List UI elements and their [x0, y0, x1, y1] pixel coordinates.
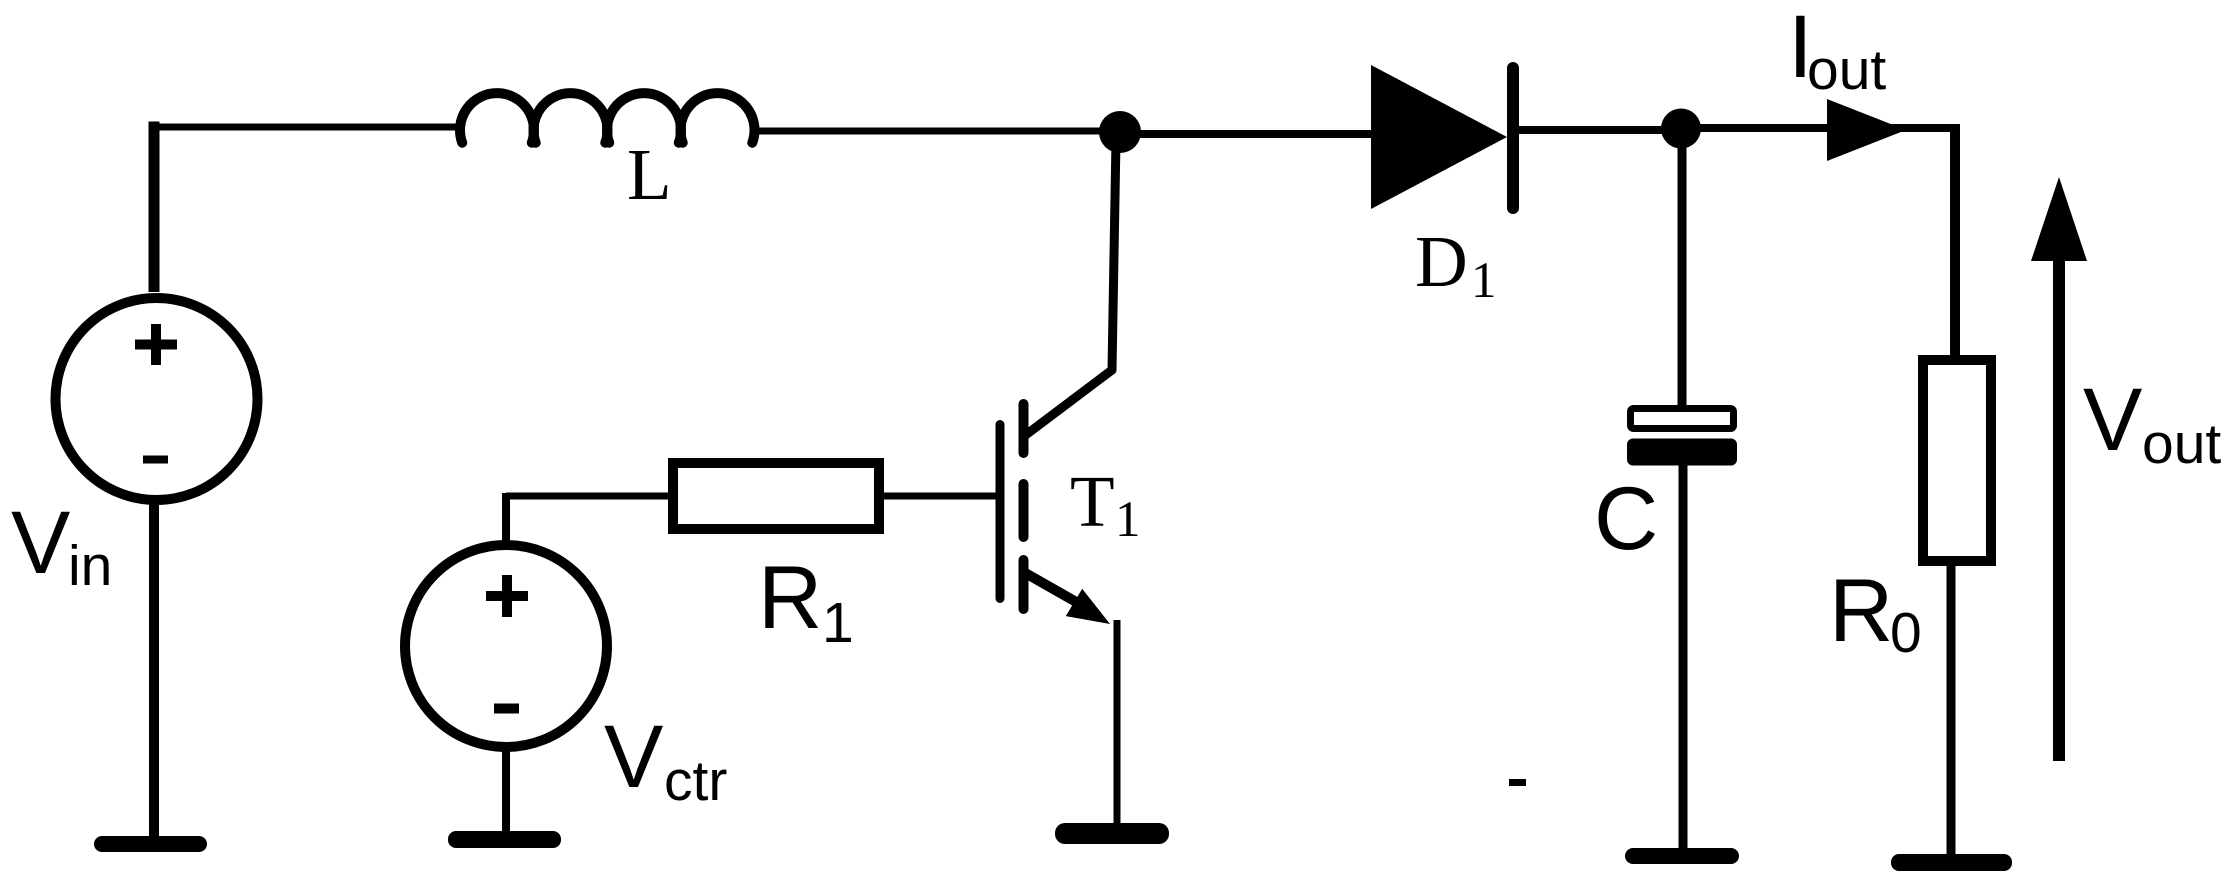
svg-text:T: T — [1070, 461, 1115, 542]
Vctr plus sign — [486, 575, 528, 617]
wire down to R0 — [1950, 124, 1960, 355]
diode D1 cathode bar — [1507, 68, 1519, 208]
resistor R1 — [673, 463, 879, 529]
transistor T1 emitter line — [1024, 572, 1086, 607]
diode D1 triangle — [1371, 65, 1507, 209]
wire Vctr top — [502, 493, 510, 546]
wire node B down to capacitor — [1678, 140, 1687, 406]
Vin plus sign — [135, 324, 177, 365]
wire Vctr to R1 — [506, 493, 668, 500]
node A junction dot — [1099, 111, 1141, 153]
wire node A to diode — [1120, 130, 1371, 138]
svg-text:1: 1 — [822, 591, 854, 655]
svg-text:1: 1 — [1115, 492, 1141, 548]
svg-text:1: 1 — [1471, 253, 1497, 309]
Vin minus sign — [143, 456, 168, 464]
transistor T1 gate bar — [996, 425, 1005, 599]
ground Vin — [94, 836, 207, 852]
wire node B to corner — [1681, 124, 1960, 132]
minus mark near C — [1509, 779, 1526, 786]
svg-text:L: L — [627, 134, 672, 215]
Vout arrow line — [2053, 255, 2065, 761]
svg-text:in: in — [68, 534, 112, 598]
wire Vin bottom — [149, 500, 159, 836]
ground T1 — [1055, 823, 1169, 844]
resistor R0 — [1923, 360, 1991, 561]
svg-text:out: out — [1807, 38, 1886, 102]
wire inductor to node A — [752, 128, 1120, 135]
svg-text:out: out — [2142, 412, 2221, 476]
Vctr minus sign — [494, 704, 519, 714]
wire top-left vertical — [149, 122, 160, 293]
voltage source Vctr — [405, 545, 607, 747]
svg-text:V: V — [2083, 369, 2142, 469]
wire capacitor down — [1679, 465, 1688, 848]
Iout arrowhead — [1827, 99, 1906, 161]
inductor L — [460, 93, 755, 143]
transistor T1 emitter arrow — [1066, 589, 1110, 624]
node B junction dot — [1661, 109, 1701, 149]
capacitor C bottom plate — [1627, 439, 1737, 466]
ground C — [1625, 848, 1739, 864]
wire top-left horizontal — [149, 124, 463, 131]
ground R0 — [1891, 854, 2012, 871]
svg-text:0: 0 — [1890, 601, 1922, 665]
ground Vctr — [448, 831, 561, 848]
voltage source Vin — [56, 298, 258, 500]
svg-text:D: D — [1415, 221, 1468, 302]
transistor T1 channel bar segments — [1019, 404, 1029, 609]
svg-text:V: V — [604, 706, 663, 806]
capacitor C top plate — [1631, 409, 1734, 429]
svg-text:R: R — [1829, 560, 1893, 660]
wire Vctr bottom — [502, 747, 510, 831]
wire T1 emitter down — [1114, 620, 1121, 823]
svg-text:V: V — [11, 492, 70, 592]
wire R0 bottom — [1947, 561, 1956, 854]
svg-text:C: C — [1594, 468, 1658, 568]
wire node A down to T1 collector — [1023, 140, 1116, 437]
wire R1 to gate — [884, 493, 996, 500]
svg-text:ctr: ctr — [664, 749, 727, 813]
wire diode to node B — [1519, 126, 1681, 134]
Vout arrowhead — [2031, 177, 2087, 261]
svg-text:R: R — [758, 547, 822, 647]
